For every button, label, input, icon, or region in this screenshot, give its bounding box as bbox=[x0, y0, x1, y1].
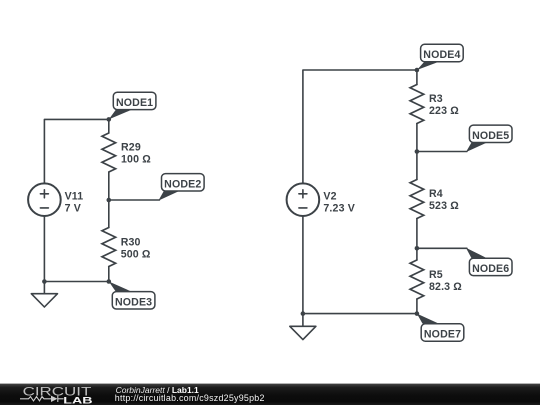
node NODE5 label bbox=[466, 125, 512, 152]
svg-text:500 Ω: 500 Ω bbox=[121, 249, 151, 261]
node NODE2 label bbox=[158, 174, 204, 201]
svg-text:82.3 Ω: 82.3 Ω bbox=[429, 281, 462, 293]
wire NODE6 rail bbox=[417, 247, 467, 249]
svg-text:R3: R3 bbox=[429, 93, 443, 105]
svg-text:7 V: 7 V bbox=[65, 202, 81, 214]
junction dot node2 bbox=[107, 198, 112, 203]
node NODE7 label bbox=[417, 314, 464, 342]
svg-text:NODE7: NODE7 bbox=[424, 329, 461, 341]
junction dot node6 bbox=[415, 246, 420, 251]
svg-text:NODE1: NODE1 bbox=[116, 97, 153, 109]
svg-text:http://circuitlab.com/c9szd25y: http://circuitlab.com/c9szd25y95pb2 bbox=[115, 393, 265, 403]
svg-text:NODE6: NODE6 bbox=[472, 263, 509, 275]
svg-text:NODE4: NODE4 bbox=[423, 49, 460, 61]
resistor R29 100Ω bbox=[102, 119, 151, 200]
CircuitLab logo wordmark LAB bbox=[63, 395, 92, 405]
svg-text:NODE5: NODE5 bbox=[472, 130, 509, 142]
voltage source V2 bbox=[287, 183, 355, 216]
resistor R5 82.3Ω bbox=[410, 248, 462, 313]
svg-text:NODE3: NODE3 bbox=[115, 296, 152, 308]
resistor R30 500Ω bbox=[102, 200, 151, 282]
junction dot node1 bbox=[107, 117, 112, 122]
wire top rail left circuit bbox=[44, 119, 108, 183]
CircuitLab logo schematic squiggle (resistor + diode) bbox=[20, 396, 64, 402]
svg-text:V2: V2 bbox=[323, 190, 336, 202]
svg-text:NODE2: NODE2 bbox=[164, 178, 201, 190]
junction dot node4 bbox=[415, 68, 420, 73]
svg-text:523 Ω: 523 Ω bbox=[429, 200, 459, 212]
wire NODE5 rail bbox=[417, 151, 467, 153]
wire top rail right circuit bbox=[303, 70, 417, 184]
CircuitLab logo wordmark CIRCUIT bbox=[23, 386, 92, 399]
node NODE1 label bbox=[109, 92, 156, 119]
svg-text:V11: V11 bbox=[65, 190, 84, 202]
junction dot node3 right bbox=[107, 279, 112, 284]
svg-text:7.23 V: 7.23 V bbox=[323, 202, 355, 214]
svg-text:R30: R30 bbox=[121, 237, 141, 249]
wire bottom rail left circuit bbox=[44, 281, 108, 283]
node NODE6 label bbox=[466, 248, 512, 276]
junction dot node7 bbox=[415, 311, 420, 316]
node NODE3 label bbox=[109, 282, 155, 310]
junction dot ground right bbox=[301, 311, 306, 316]
svg-text:R4: R4 bbox=[429, 188, 443, 200]
resistor R4 523Ω bbox=[410, 152, 459, 249]
svg-text:R5: R5 bbox=[429, 269, 443, 281]
wire V11 bottom to ground rail bbox=[43, 216, 45, 282]
junction dot node3 left bbox=[42, 279, 47, 284]
svg-text:R29: R29 bbox=[121, 141, 141, 153]
ground (left circuit) bbox=[31, 282, 57, 308]
svg-text:100 Ω: 100 Ω bbox=[121, 153, 151, 165]
wire bottom rail right circuit bbox=[303, 313, 417, 315]
svg-text:LAB: LAB bbox=[63, 395, 92, 405]
wire V2 bottom to ground rail bbox=[302, 216, 304, 314]
voltage source V11 bbox=[28, 183, 83, 216]
ground (right circuit) bbox=[290, 314, 316, 340]
resistor R3 223Ω bbox=[410, 70, 459, 152]
node NODE4 label bbox=[417, 44, 463, 70]
junction dot node5 bbox=[415, 149, 420, 154]
wire NODE2 rail bbox=[109, 199, 160, 201]
svg-text:223 Ω: 223 Ω bbox=[429, 105, 459, 117]
